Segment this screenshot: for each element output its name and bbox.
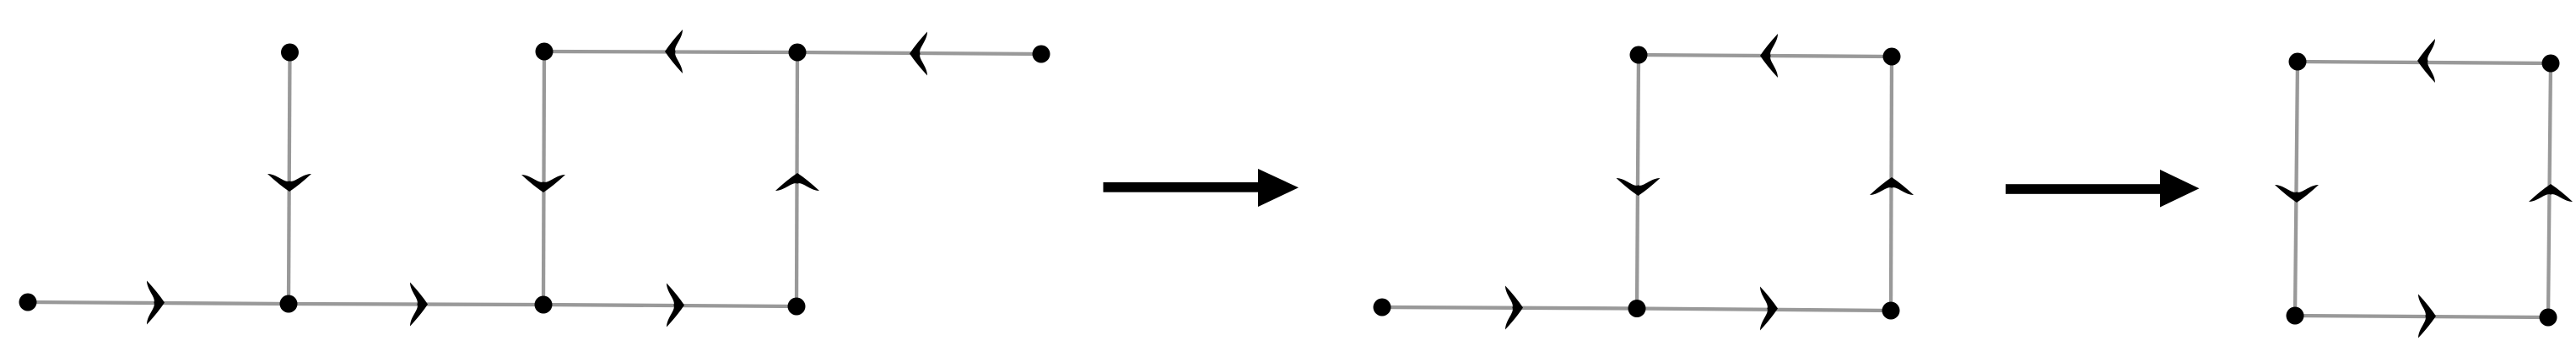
- node BR1: [788, 298, 806, 316]
- wire TL1-BL1: [543, 51, 544, 305]
- arrowhead TL1-BL1 down: [521, 175, 565, 192]
- wire TL2-B2: [1637, 55, 1639, 309]
- arrowhead B2-BR2 right: [1760, 287, 1778, 331]
- node B2: [1628, 300, 1646, 317]
- arrowhead BL1-BR1 right: [667, 284, 684, 327]
- node TL2: [1630, 46, 1648, 64]
- node BL3: [2287, 307, 2304, 325]
- wire R1-TR1: [797, 52, 1041, 54]
- node TR2: [1883, 48, 1901, 66]
- arrowhead TR2-TL2 left: [1760, 34, 1778, 78]
- arrowhead B1-BL1 right: [410, 283, 428, 327]
- node B1: [280, 295, 298, 313]
- node T1: [281, 44, 299, 62]
- node TR1: [789, 44, 807, 62]
- arrowhead T1-B1 down: [267, 174, 311, 192]
- arrowhead A1-B1 right: [147, 281, 165, 325]
- node TL1: [536, 43, 554, 61]
- wire BL1-BR1: [543, 305, 797, 306]
- arrowhead BL3-BR3 right: [2418, 295, 2436, 338]
- arrowhead TR3-TL3 left: [2417, 39, 2435, 83]
- wire B1-BL1: [289, 304, 543, 305]
- big arrow 2: [2006, 170, 2200, 208]
- big arrow 1: [1104, 169, 1299, 207]
- wire TR1-BR1: [797, 52, 797, 306]
- arrowhead A2-B2 right: [1505, 286, 1523, 330]
- node BL1: [535, 296, 553, 314]
- node BR3: [2540, 309, 2557, 327]
- arrowhead BR2-TR2 up: [1870, 177, 1914, 195]
- arrowhead TL2-B2 down: [1617, 178, 1661, 196]
- wire A1-B1: [28, 302, 289, 304]
- arrowhead BR3-TR3 up: [2529, 184, 2573, 202]
- node A1: [19, 294, 37, 311]
- node R1: [1033, 46, 1050, 63]
- node TR3: [2542, 55, 2560, 73]
- node BR2: [1882, 302, 1900, 320]
- wire A2-B2: [1382, 307, 1637, 309]
- wire TR3-TL3: [2298, 62, 2551, 63]
- arrowhead TR1-TL1 left: [665, 30, 683, 73]
- arrowhead R1-TR1 left: [910, 32, 927, 76]
- wire BR3-TR3: [2548, 63, 2551, 317]
- wire T1-B1: [289, 52, 290, 304]
- wire BR2-TR2: [1891, 57, 1892, 311]
- arrowhead TL3-BL3 down: [2275, 185, 2319, 203]
- wire TR2-TL2: [1639, 55, 1892, 57]
- wire BL3-BR3: [2295, 316, 2548, 317]
- wire B2-BR2: [1637, 309, 1891, 311]
- wire TR1-TL1: [544, 51, 797, 52]
- arrowhead BR1-TR1 up: [775, 173, 819, 191]
- wire TL3-BL3: [2295, 62, 2298, 316]
- node TL3: [2289, 53, 2307, 71]
- node A2: [1374, 299, 1391, 316]
